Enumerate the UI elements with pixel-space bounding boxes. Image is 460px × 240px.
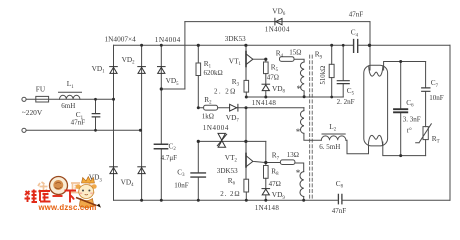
svg-text:*: * <box>296 127 301 137</box>
transformer winding W2 <box>300 111 303 134</box>
svg-text:47Ω: 47Ω <box>267 74 279 82</box>
svg-text:6. 5mH: 6. 5mH <box>319 143 340 151</box>
inductor L2 <box>321 136 346 140</box>
diode VD6 <box>275 18 282 25</box>
svg-text:1kΩ: 1kΩ <box>202 112 214 120</box>
diode VD1 <box>110 67 118 74</box>
lamp filament top <box>369 66 383 76</box>
thermistor RT <box>423 127 428 140</box>
svg-text:510kΩ: 510kΩ <box>320 66 327 85</box>
wire main DC top rail y=45 <box>114 44 451 46</box>
resistor R5 <box>265 59 267 62</box>
inductor L1 <box>60 95 80 99</box>
watermark mascot crown <box>82 177 95 184</box>
diode VD2 <box>138 67 146 74</box>
watermark mascot ears <box>76 184 81 189</box>
transformer winding W1 <box>300 62 304 91</box>
diode VD3 <box>110 167 118 174</box>
fluorescent lamp tube <box>364 65 388 146</box>
capacitor C7 <box>425 62 427 127</box>
resistor R3 <box>244 80 249 92</box>
resistor R6 <box>244 179 249 192</box>
svg-text:6mH: 6mH <box>61 102 75 110</box>
wire winding W2 top stub <box>303 108 305 111</box>
lamp filament bottom <box>368 135 382 145</box>
wire R1/C3 column lower <box>197 141 199 200</box>
diac VD (trigger diode) <box>217 133 226 147</box>
capacitor C3 <box>191 173 205 177</box>
svg-text:10nF: 10nF <box>174 181 189 189</box>
diode VD5 <box>158 67 166 74</box>
svg-text:t°: t° <box>407 126 412 134</box>
wire C2 branch <box>160 89 162 200</box>
transformer core <box>309 55 311 200</box>
diode VD8 <box>262 84 270 90</box>
diode VD9 <box>262 189 270 195</box>
capacitor C4 <box>354 40 358 53</box>
svg-text:47nF: 47nF <box>349 10 364 18</box>
svg-text:FU: FU <box>36 84 46 93</box>
diode VD4 <box>138 167 146 174</box>
svg-text:1N4004: 1N4004 <box>203 124 229 132</box>
wire AC line N <box>26 129 140 131</box>
transistor VT2 <box>246 141 266 179</box>
watermark red text "wei ku yi xia" <box>25 190 77 203</box>
svg-text:3DK53: 3DK53 <box>225 35 246 43</box>
svg-text:620kΩ: 620kΩ <box>204 69 223 77</box>
wire lamp pin top-right to C6/C7 line <box>384 62 426 71</box>
svg-text:1N4004: 1N4004 <box>265 26 290 34</box>
svg-text:1N4148: 1N4148 <box>255 204 280 212</box>
svg-text:~220V: ~220V <box>22 108 43 117</box>
capacitor C2 <box>154 144 167 149</box>
wire L2 to lamp bottom-left <box>346 140 369 154</box>
svg-text:3. 3nF: 3. 3nF <box>403 115 421 123</box>
resistor R9 <box>331 45 333 64</box>
WATERMARK <box>25 177 102 213</box>
svg-text:3DK53: 3DK53 <box>217 167 238 175</box>
wire base line y=107.7 (R2/VD7) <box>198 107 304 109</box>
svg-text:47Ω: 47Ω <box>269 180 281 188</box>
AC terminal lower <box>22 128 26 132</box>
watermark mascot brush <box>76 198 97 206</box>
transistor VT1 <box>246 45 266 80</box>
wire DIAC node drop to R7 line <box>265 141 267 162</box>
capacitor C6 <box>400 62 402 156</box>
svg-text:47nF: 47nF <box>71 118 86 126</box>
wire bridge column VD1/VD3 <box>113 45 115 200</box>
wire VT2 collector riser x=246 <box>245 108 247 142</box>
svg-text:2. 2nF: 2. 2nF <box>337 98 355 106</box>
resistor R7 <box>280 160 295 165</box>
svg-text:www.dzsc.com: www.dzsc.com <box>38 203 97 212</box>
svg-text:1N4004: 1N4004 <box>155 35 181 44</box>
wire bridge column VD2/VD4 <box>141 45 143 200</box>
wire AC line L <box>26 98 113 100</box>
svg-text:*: * <box>297 84 302 94</box>
svg-text:2. 2Ω: 2. 2Ω <box>220 190 240 198</box>
wire R7 line y=162.7 <box>266 163 304 172</box>
resistor R4 <box>280 57 295 62</box>
svg-text:1N4148: 1N4148 <box>252 99 277 107</box>
wire lamp pin bottom-right to RT/C6 <box>383 142 426 156</box>
capacitor C8 <box>338 194 342 203</box>
wire VD5 column + elbow to VD6 branch <box>161 45 185 89</box>
watermark faint text row <box>38 182 95 193</box>
wire mid rail y=97 <box>246 96 343 98</box>
svg-text:47nF: 47nF <box>332 207 347 215</box>
wire VD6 right drop to node (370,45) <box>369 22 371 46</box>
fuse FU <box>36 96 49 102</box>
watermark mascot body <box>79 199 94 208</box>
resistor R2 <box>204 105 218 110</box>
AC terminal upper <box>22 97 26 101</box>
resistor R8 <box>265 163 267 166</box>
svg-text:15Ω: 15Ω <box>289 48 301 56</box>
wire VD6 riser x=185 <box>184 22 186 89</box>
svg-text:10nF: 10nF <box>429 94 444 102</box>
svg-text:1N4007×4: 1N4007×4 <box>105 35 137 44</box>
wire right bus <box>449 45 451 200</box>
transformer winding W3 <box>300 172 304 197</box>
svg-text:2. 2Ω: 2. 2Ω <box>214 87 237 95</box>
wire lamp pin top-left <box>369 45 371 70</box>
diode VD7 <box>230 104 238 111</box>
svg-text:*: * <box>296 168 301 178</box>
wire DIAC line y=141.4 <box>198 140 265 142</box>
wire bottom rail <box>114 199 451 201</box>
resistor R1 <box>197 45 199 63</box>
capacitor C1 <box>95 99 97 130</box>
svg-text:13Ω: 13Ω <box>287 151 299 159</box>
capacitor C5 <box>342 45 344 97</box>
watermark mascot head <box>79 185 94 199</box>
watermark seal emblem <box>50 177 68 195</box>
wire top rail y=21.6 <box>185 21 370 23</box>
svg-text:4.7μF: 4.7μF <box>161 154 178 162</box>
